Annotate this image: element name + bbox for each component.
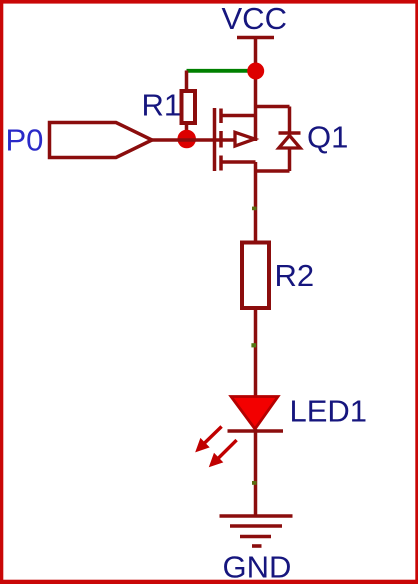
transistor Q1 channel top segment bbox=[219, 109, 223, 124]
port flag P0 bbox=[50, 123, 153, 158]
LED light arrow 2 head bbox=[210, 454, 223, 467]
svg-text:GND: GND bbox=[223, 549, 292, 584]
wire joint dot C bbox=[252, 481, 257, 485]
junction node at VCC bbox=[247, 63, 264, 80]
body diode bottom branch bbox=[256, 169, 290, 173]
LED LED1 cathode bar bbox=[228, 429, 284, 433]
wire joint dot B bbox=[251, 343, 256, 347]
LED light arrow 2 shaft bbox=[216, 440, 237, 460]
svg-text:LED1: LED1 bbox=[290, 394, 368, 429]
transistor Q1 channel bottom segment bbox=[219, 156, 223, 171]
VCC stem wire bbox=[254, 36, 258, 71]
LED light arrow 1 shaft bbox=[202, 427, 222, 446]
transistor Q1 drain lead bbox=[254, 71, 258, 142]
ground bar 2 bbox=[230, 524, 282, 528]
transistor Q1 body arrow bbox=[235, 132, 255, 146]
svg-text:VCC: VCC bbox=[222, 1, 287, 36]
LED LED1 triangle bbox=[231, 397, 278, 430]
body diode anode lead bbox=[288, 148, 292, 171]
transistor Q1 gate line bbox=[213, 108, 217, 171]
wire R1 top bbox=[185, 71, 189, 92]
transistor Q1 drain stub bbox=[221, 114, 256, 118]
LED light arrow 1 head bbox=[196, 439, 209, 452]
wire (green) from VCC node to R1 bbox=[187, 69, 253, 73]
resistor R1 bbox=[182, 91, 196, 123]
svg-text:R1: R1 bbox=[142, 88, 182, 123]
ground bar 1 bbox=[220, 514, 293, 518]
wire LED to GND bbox=[254, 429, 258, 516]
svg-text:R2: R2 bbox=[275, 258, 315, 293]
svg-text:Q1: Q1 bbox=[307, 120, 348, 155]
transistor Q1 source lead bbox=[254, 162, 258, 242]
body diode top branch bbox=[256, 105, 290, 109]
body diode cathode bar bbox=[279, 131, 301, 135]
wire P0 to gate bbox=[152, 138, 236, 142]
junction node at gate bbox=[177, 130, 196, 149]
wire R1 bottom bbox=[185, 123, 189, 140]
svg-text:P0: P0 bbox=[6, 123, 44, 158]
wire joint dot A bbox=[252, 207, 257, 211]
transistor Q1 source stub bbox=[221, 160, 256, 164]
body diode cathode lead bbox=[288, 107, 292, 134]
VCC power symbol bar bbox=[237, 36, 274, 40]
ground bar 3 bbox=[240, 535, 271, 539]
body diode triangle bbox=[279, 136, 300, 149]
wire R2 to LED bbox=[254, 310, 258, 397]
resistor R2 bbox=[242, 243, 269, 309]
transistor Q1 channel middle segment bbox=[219, 131, 223, 148]
ground bar 4 bbox=[252, 544, 262, 548]
